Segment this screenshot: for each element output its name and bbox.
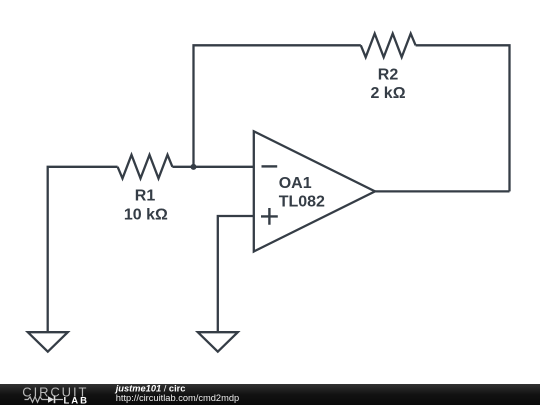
node junction dot [191, 164, 197, 170]
svg-text:2 kΩ: 2 kΩ [370, 85, 405, 102]
resistor R2 [361, 34, 416, 58]
plus sign (non-inverting input) [261, 208, 278, 225]
logo resistor zigzag [25, 397, 49, 402]
wire: left input vertical + horizontal to R1 [48, 167, 118, 332]
minus sign (inverting input) [262, 165, 278, 167]
svg-text:http://circuitlab.com/cmd2mdp: http://circuitlab.com/cmd2mdp [116, 393, 240, 403]
op-amp U1 triangle [254, 131, 375, 251]
wire: non-inverting input and down to ground [218, 216, 254, 332]
svg-text:10 kΩ: 10 kΩ [124, 207, 168, 224]
resistor R1 [118, 155, 173, 179]
footer bar [0, 384, 540, 405]
wire: op-amp output [375, 190, 510, 192]
svg-text:LAB: LAB [64, 396, 90, 405]
ground (right) [198, 332, 238, 352]
wire: feedback up from node and across top [194, 45, 361, 167]
ground (left) [28, 332, 68, 352]
wire: R1 to op-amp inverting input [172, 166, 253, 168]
logo diode [48, 396, 54, 402]
svg-text:R2: R2 [378, 66, 399, 83]
wire: R2 right and down to output [416, 45, 510, 191]
svg-text:R1: R1 [135, 188, 156, 205]
svg-text:OA1: OA1 [279, 175, 312, 192]
svg-text:TL082: TL082 [279, 194, 325, 211]
